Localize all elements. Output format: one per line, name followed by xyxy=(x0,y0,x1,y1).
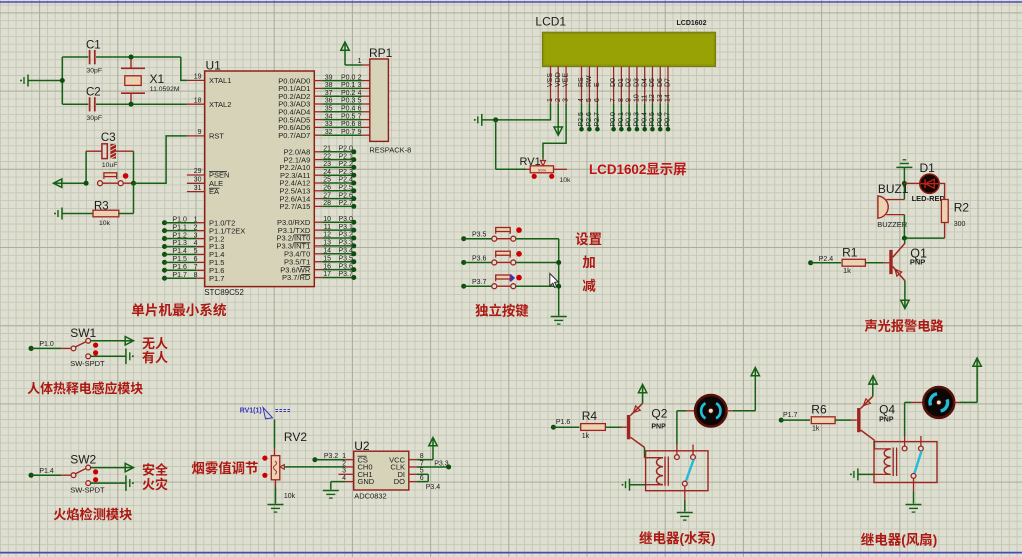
ground (alarm top) xyxy=(896,160,912,184)
svg-text:29: 29 xyxy=(194,168,202,175)
relay RL1 coil xyxy=(657,457,669,486)
value C3 10uF xyxy=(102,162,118,169)
svg-text:9: 9 xyxy=(198,129,202,136)
svg-text:C3: C3 xyxy=(101,132,116,144)
svg-text:3: 3 xyxy=(563,98,570,102)
svg-text:P0.7: P0.7 xyxy=(665,112,672,127)
U1 pin 34 / net P0.5 wire to RP1 pin 7 xyxy=(278,113,370,124)
svg-text:9: 9 xyxy=(358,129,362,136)
svg-text:X1: X1 xyxy=(150,72,165,86)
RV1 wiper arrow xyxy=(541,159,546,167)
LED D1 xyxy=(904,174,939,193)
node P1.0 xyxy=(29,341,54,351)
svg-text:P0.7: P0.7 xyxy=(341,129,356,136)
svg-text:P2.4: P2.4 xyxy=(819,256,834,263)
U1 pin 38 / net P0.1 wire to RP1 pin 3 xyxy=(278,82,370,93)
capacitor C3 (electrolytic) xyxy=(86,144,133,159)
SW2 state dot down xyxy=(93,477,98,482)
svg-text:SW-SPDT: SW-SPDT xyxy=(70,359,105,368)
value C2 30pF xyxy=(87,115,103,122)
value Q2 PNP xyxy=(651,424,666,431)
svg-text:3: 3 xyxy=(194,232,198,239)
svg-text:P3.0: P3.0 xyxy=(339,216,354,223)
U1 pin 31 EA xyxy=(187,185,220,196)
label R1 xyxy=(842,246,858,260)
node P1.6 xyxy=(551,419,571,430)
svg-text:PNP: PNP xyxy=(910,257,925,266)
svg-text:P0.6: P0.6 xyxy=(341,121,356,128)
U1 pin 5 / net P1.4 xyxy=(162,248,224,259)
relay RL2 coil bottom wire xyxy=(874,473,891,475)
U1 pin 23 / net P2.2 xyxy=(279,161,356,172)
svg-text:1k: 1k xyxy=(812,426,820,433)
LCD pin 9 D2 xyxy=(626,66,633,104)
U1 pin 36 / net P0.3 wire to RP1 pin 5 xyxy=(278,98,370,109)
svg-text:D6: D6 xyxy=(657,78,664,87)
LCD pin 7 D0 xyxy=(610,66,617,104)
svg-text:BUZ1: BUZ1 xyxy=(878,182,909,196)
LCD pin 1 VSS xyxy=(547,66,554,104)
ground (crystal bypass caps) xyxy=(20,75,62,87)
svg-text:1: 1 xyxy=(194,216,198,223)
wire R3 to reset node xyxy=(133,183,135,213)
svg-text:28: 28 xyxy=(323,200,331,207)
svg-text:1: 1 xyxy=(358,58,362,65)
svg-text:38: 38 xyxy=(325,82,333,89)
svg-text:30: 30 xyxy=(194,177,202,184)
svg-text:10: 10 xyxy=(634,94,641,102)
label BUZ1 xyxy=(878,182,909,196)
svg-text:5: 5 xyxy=(586,98,593,102)
svg-text:P1.2: P1.2 xyxy=(173,232,188,239)
svg-text:12: 12 xyxy=(649,94,656,102)
svg-text:22: 22 xyxy=(323,153,331,160)
svg-text:D0: D0 xyxy=(610,78,617,87)
svg-text:P1.7: P1.7 xyxy=(209,274,224,283)
node P1.7 xyxy=(779,412,798,423)
capacitor C2 xyxy=(62,97,187,111)
svg-text:6: 6 xyxy=(194,256,198,263)
svg-text:火灾: 火灾 xyxy=(142,474,168,493)
LCD pin 4 RS xyxy=(578,66,585,104)
label MCU section xyxy=(131,299,227,319)
svg-text:DO: DO xyxy=(394,477,405,486)
svg-text:P3.7: P3.7 xyxy=(472,279,487,286)
RV2 state dot 1 xyxy=(262,456,267,461)
svg-text:7: 7 xyxy=(358,113,362,120)
svg-text:火焰检测模块: 火焰检测模块 xyxy=(53,504,132,523)
potentiometer RV2 xyxy=(271,456,284,480)
svg-text:4: 4 xyxy=(578,98,585,102)
voltage probe RV1(1) xyxy=(240,407,292,419)
svg-text:11: 11 xyxy=(324,224,331,231)
svg-text:P2.6: P2.6 xyxy=(586,112,593,127)
svg-text:P2.1: P2.1 xyxy=(339,153,354,160)
svg-text:5: 5 xyxy=(194,248,198,255)
svg-text:P2.5: P2.5 xyxy=(578,112,585,127)
ground (RV2) xyxy=(268,505,284,513)
svg-text:R2: R2 xyxy=(954,201,970,215)
U1 pin 25 / net P2.4 xyxy=(279,177,356,188)
svg-text:RV1(1): RV1(1) xyxy=(240,407,262,414)
wire probe to RV2 xyxy=(274,420,276,456)
svg-text:2: 2 xyxy=(555,98,562,102)
label Q2 xyxy=(651,407,667,421)
svg-text:ADC0832: ADC0832 xyxy=(354,491,387,500)
svg-text:21: 21 xyxy=(323,146,331,153)
SW1 state dot down xyxy=(93,350,98,355)
svg-text:8: 8 xyxy=(194,272,198,279)
svg-text:P2.5: P2.5 xyxy=(339,185,354,192)
U1 pin 27 / net P2.6 xyxy=(279,192,356,203)
value R2 300 xyxy=(954,221,966,228)
wire fan motor to power xyxy=(960,366,977,402)
label plus xyxy=(582,251,595,271)
U1 pin 29 PSEN xyxy=(187,168,230,179)
svg-text:P1.6: P1.6 xyxy=(173,264,188,271)
buzzer BUZ1 xyxy=(878,196,905,218)
wire C3 right leg xyxy=(133,151,135,183)
svg-text:GND: GND xyxy=(358,477,375,486)
wire Q1 emitter to ground arrow xyxy=(904,281,906,301)
value LCD1602 xyxy=(677,20,707,27)
svg-text:U2: U2 xyxy=(354,439,370,453)
potentiometer RV1 xyxy=(496,120,567,173)
svg-text:35: 35 xyxy=(325,106,333,113)
svg-text:设置: 设置 xyxy=(575,228,602,248)
U1 pin 37 / net P0.2 wire to RP1 pin 4 xyxy=(278,90,370,101)
U1 pin 10 / net P3.0 xyxy=(277,216,356,227)
svg-text:33: 33 xyxy=(325,121,333,128)
svg-text:1k: 1k xyxy=(582,433,590,440)
svg-text:P2.2: P2.2 xyxy=(339,161,354,168)
power arrow (pump motor) xyxy=(751,368,759,376)
U1 pin 39 / net P0.0 wire to RP1 pin 2 xyxy=(278,74,370,85)
svg-text:18: 18 xyxy=(194,97,202,104)
svg-text:D3: D3 xyxy=(634,78,641,87)
U1 pin 3 / net P1.2 xyxy=(162,232,224,243)
svg-text:P3.3: P3.3 xyxy=(434,460,449,467)
svg-text:P2.0: P2.0 xyxy=(339,146,354,153)
svg-text:RV1: RV1 xyxy=(520,156,541,168)
node P3.6 xyxy=(461,255,486,265)
op-amp U1 body (STC89C52) xyxy=(205,71,315,287)
U2 pin 6 DO / net P3.4 xyxy=(394,474,440,491)
svg-text:人体热释电感应模块: 人体热释电感应模块 xyxy=(27,378,143,397)
LCD pin 14 D7 xyxy=(665,66,672,104)
transistor Q4 (PNP) xyxy=(859,396,875,440)
LCD pin 6 E xyxy=(594,66,601,104)
wire Q2 emitter to power xyxy=(642,392,644,403)
label PIR section xyxy=(27,378,143,397)
U1 pin 19 XTAL1 xyxy=(187,74,231,85)
label R4 xyxy=(582,409,598,423)
node P3.7 xyxy=(461,279,486,289)
sheet border bottom xyxy=(0,552,1022,554)
svg-text:SW1: SW1 xyxy=(70,326,96,340)
svg-text:RV2: RV2 xyxy=(284,430,307,444)
LCD pin 10 D3 xyxy=(634,66,641,104)
LCD pin 8 D1 xyxy=(618,66,625,104)
wire VSS to ground xyxy=(482,104,551,120)
U2 pin 3 CH1 xyxy=(339,468,373,479)
svg-text:Q2: Q2 xyxy=(651,407,667,421)
U1 pin 32 / net P0.7 wire to RP1 pin 9 xyxy=(278,129,370,140)
relay RL1 switch blade xyxy=(686,460,694,482)
wire Q2 collector to relay xyxy=(645,447,664,457)
svg-text:P3.6: P3.6 xyxy=(339,263,354,270)
svg-text:P0.0: P0.0 xyxy=(610,112,617,127)
wire P3.6 to trunk xyxy=(516,261,559,263)
mouse cursor xyxy=(550,274,559,288)
svg-text:23: 23 xyxy=(323,161,331,168)
motor (fan) xyxy=(905,387,960,436)
net P0.4 wire (LCD D4) xyxy=(641,104,648,132)
svg-text:14: 14 xyxy=(323,248,331,255)
junction reset-right xyxy=(131,181,136,186)
svg-text:7: 7 xyxy=(420,460,424,467)
svg-text:减: 减 xyxy=(582,274,596,294)
capacitor C1 xyxy=(62,50,181,64)
net P0.5 wire (LCD D5) xyxy=(649,104,656,132)
svg-text:继电器(风扇): 继电器(风扇) xyxy=(861,529,938,549)
value C1 30pF xyxy=(87,68,103,75)
ground (RL2 coil) xyxy=(850,468,874,480)
svg-text:39: 39 xyxy=(325,74,333,81)
motor (pump) xyxy=(677,395,733,444)
relay RL2 body xyxy=(874,442,937,483)
power arrow (Q2) xyxy=(638,385,646,393)
node P3.2 xyxy=(312,453,338,462)
svg-text:4: 4 xyxy=(194,240,198,247)
value LED-RED xyxy=(912,194,946,203)
svg-text:2: 2 xyxy=(194,224,198,231)
svg-text:有人: 有人 xyxy=(142,347,168,366)
svg-text:RS: RS xyxy=(578,77,585,87)
svg-text:VEE: VEE xyxy=(563,73,570,87)
svg-text:P0.1: P0.1 xyxy=(341,82,356,89)
svg-text:2: 2 xyxy=(342,460,346,467)
svg-text:27: 27 xyxy=(323,192,331,199)
svg-text:5: 5 xyxy=(420,468,424,475)
label person xyxy=(142,347,168,366)
svg-text:P3.1: P3.1 xyxy=(339,224,354,231)
wire Q4 emitter to power xyxy=(872,384,874,397)
relay RL2 contact NC xyxy=(919,436,924,451)
U1 pin 11 / net P3.1 xyxy=(278,224,357,235)
svg-text:10k: 10k xyxy=(99,220,111,227)
svg-text:独立按键: 独立按键 xyxy=(475,299,529,319)
net P0.3 wire (LCD D3) xyxy=(634,104,641,132)
resistor R4 xyxy=(581,424,627,431)
svg-text:P1.0: P1.0 xyxy=(173,216,188,223)
U1 pin 26 / net P2.5 xyxy=(279,185,356,196)
svg-text:SW2: SW2 xyxy=(70,453,96,467)
svg-text:PNP: PNP xyxy=(879,416,894,423)
svg-text:36: 36 xyxy=(325,98,333,105)
svg-text:STC89C52: STC89C52 xyxy=(204,288,244,297)
svg-text:VSS: VSS xyxy=(547,73,554,87)
svg-text:P2.7/A15: P2.7/A15 xyxy=(279,202,310,211)
relay RL2 coil xyxy=(884,448,896,477)
U2 pin 2 CH0 xyxy=(342,460,372,471)
svg-text:19: 19 xyxy=(194,74,202,81)
ground (RL1 coil) xyxy=(622,479,646,491)
label RP1 xyxy=(369,46,393,60)
svg-text:P3.5: P3.5 xyxy=(339,255,354,262)
svg-text:6: 6 xyxy=(594,98,601,102)
relay RL1 common contact xyxy=(682,481,687,511)
svg-text:10k: 10k xyxy=(560,177,572,184)
crystal X1 xyxy=(121,55,145,107)
value RESPACK-8 xyxy=(369,146,411,155)
push button P3.6 xyxy=(464,251,522,265)
svg-text:34: 34 xyxy=(325,113,333,120)
svg-text:17: 17 xyxy=(323,271,331,278)
svg-text:LCD1: LCD1 xyxy=(535,14,566,28)
power arrow (RP1) xyxy=(341,42,362,65)
svg-text:P0.3: P0.3 xyxy=(634,112,641,127)
net P0.6 wire (LCD D6) xyxy=(657,104,664,132)
value X1 11.0592M xyxy=(150,86,180,93)
relay RL1 contact NO xyxy=(675,445,680,460)
ground (SW1) xyxy=(126,349,134,365)
svg-text:P1.7: P1.7 xyxy=(173,272,188,279)
label RV1 xyxy=(520,156,541,168)
U1 pin 22 / net P2.1 xyxy=(284,153,357,164)
svg-text:C2: C2 xyxy=(86,87,101,99)
svg-text:P0.6: P0.6 xyxy=(657,112,664,127)
value R6 1k xyxy=(812,426,820,433)
push button P3.7 xyxy=(464,275,522,289)
switch SW1 (SW-SPDT) xyxy=(31,338,91,358)
svg-text:8: 8 xyxy=(618,98,625,102)
wire VEE to RV1 wiper xyxy=(543,104,566,159)
wire P1.6 to R4 xyxy=(553,426,579,428)
svg-text:D1: D1 xyxy=(920,161,936,175)
svg-text:1: 1 xyxy=(342,453,346,460)
svg-text:6: 6 xyxy=(358,106,362,113)
svg-text:50%: 50% xyxy=(538,168,546,173)
blue marker xyxy=(511,274,515,282)
svg-text:10: 10 xyxy=(323,216,331,223)
svg-text:P3.6: P3.6 xyxy=(472,255,487,262)
power arrow (U2) xyxy=(429,438,437,451)
svg-text:P1.4: P1.4 xyxy=(39,468,54,475)
svg-text:11: 11 xyxy=(641,95,648,102)
value Q4 PNP xyxy=(879,416,894,423)
svg-text:13: 13 xyxy=(323,240,331,247)
svg-text:10k: 10k xyxy=(284,493,296,500)
value R1 1k xyxy=(843,266,851,275)
svg-text:4: 4 xyxy=(358,90,362,97)
svg-text:9: 9 xyxy=(626,98,633,102)
svg-text:30pF: 30pF xyxy=(87,68,103,75)
svg-text:XTAL2: XTAL2 xyxy=(209,100,231,109)
node P2.4 xyxy=(808,256,833,266)
svg-text:E: E xyxy=(594,82,601,87)
net P0.2 wire (LCD D2) xyxy=(626,104,633,132)
svg-text:SW-SPDT: SW-SPDT xyxy=(70,486,105,495)
U2 pin 7 CLK / net P3.3 xyxy=(390,460,451,471)
svg-text:P1.3: P1.3 xyxy=(173,240,188,247)
value RV1 10k xyxy=(560,177,572,184)
U1 pin 16 / net P3.6 xyxy=(280,263,356,274)
label SW1 xyxy=(70,326,96,340)
svg-text:BUZZER: BUZZER xyxy=(877,220,908,229)
relay RL1 body xyxy=(646,451,708,491)
wire SW1 throw down to ground xyxy=(91,355,126,357)
value R4 1k xyxy=(582,433,590,440)
svg-text:300: 300 xyxy=(954,221,966,228)
junction reset-left xyxy=(84,181,89,186)
RV2 state dot 2 xyxy=(262,473,267,478)
keys trunk wire xyxy=(556,239,561,316)
ground (keys) xyxy=(551,317,567,325)
net P0.7 wire (LCD D7) xyxy=(665,104,672,132)
svg-text:10uF: 10uF xyxy=(102,162,118,169)
svg-text:37: 37 xyxy=(325,90,333,97)
label U1 xyxy=(206,59,222,73)
svg-text:7: 7 xyxy=(610,98,617,102)
svg-text:7: 7 xyxy=(194,264,198,271)
svg-text:R1: R1 xyxy=(842,246,858,260)
svg-text:11.0592M: 11.0592M xyxy=(150,86,180,93)
label R6 xyxy=(811,403,827,417)
label Q4 xyxy=(879,403,895,417)
U1 pin 30 ALE xyxy=(187,177,223,188)
ground arrow (Q1) xyxy=(901,300,909,308)
svg-text:U1: U1 xyxy=(206,59,222,73)
svg-text:P3.2: P3.2 xyxy=(339,232,354,239)
LCD pin 5 RW xyxy=(586,66,593,104)
wire D1 to R2 xyxy=(939,183,944,199)
value RV2 10k xyxy=(284,493,296,500)
svg-text:P3.4: P3.4 xyxy=(339,248,354,255)
net P2.6 wire (LCD RW) xyxy=(586,104,593,132)
label Q1 xyxy=(910,247,927,261)
resistor pack RP1 xyxy=(370,59,389,141)
svg-text:XTAL1: XTAL1 xyxy=(209,76,231,85)
ground (R3) xyxy=(54,208,93,220)
net P2.5 wire (LCD RS) xyxy=(578,104,585,132)
resistor R2 xyxy=(941,200,948,223)
wire SW2 throw up to power arrow xyxy=(91,463,134,471)
label R2 xyxy=(954,201,970,215)
U1 pin 12 / net P3.2 xyxy=(277,232,357,243)
svg-text:R6: R6 xyxy=(811,403,827,417)
transistor Q2 (PNP) xyxy=(629,403,645,447)
wire RV2 wiper to CH0 xyxy=(284,466,354,468)
U1 pin 28 / net P2.7 xyxy=(279,200,356,211)
U1 pin 35 / net P0.4 wire to RP1 pin 6 xyxy=(278,106,370,117)
U1 pin 13 / net P3.3 xyxy=(277,240,357,251)
svg-text:P0.4: P0.4 xyxy=(641,112,648,127)
svg-text:R4: R4 xyxy=(582,409,598,423)
U1 pin 8 / net P1.7 xyxy=(162,272,224,283)
label smoke adjust xyxy=(192,457,259,477)
svg-text:15: 15 xyxy=(323,255,331,262)
ground (SW2) xyxy=(126,475,134,491)
LCD pin 11 D4 xyxy=(641,66,648,104)
U2 pin 5 DI xyxy=(398,468,429,479)
label C2 xyxy=(86,87,101,99)
svg-text:RP1: RP1 xyxy=(369,46,393,60)
resistor R1 xyxy=(842,259,889,266)
U1 pin 1 / net P1.0 xyxy=(162,216,235,227)
label SW2 xyxy=(70,453,96,467)
svg-text:30pF: 30pF xyxy=(87,115,103,122)
